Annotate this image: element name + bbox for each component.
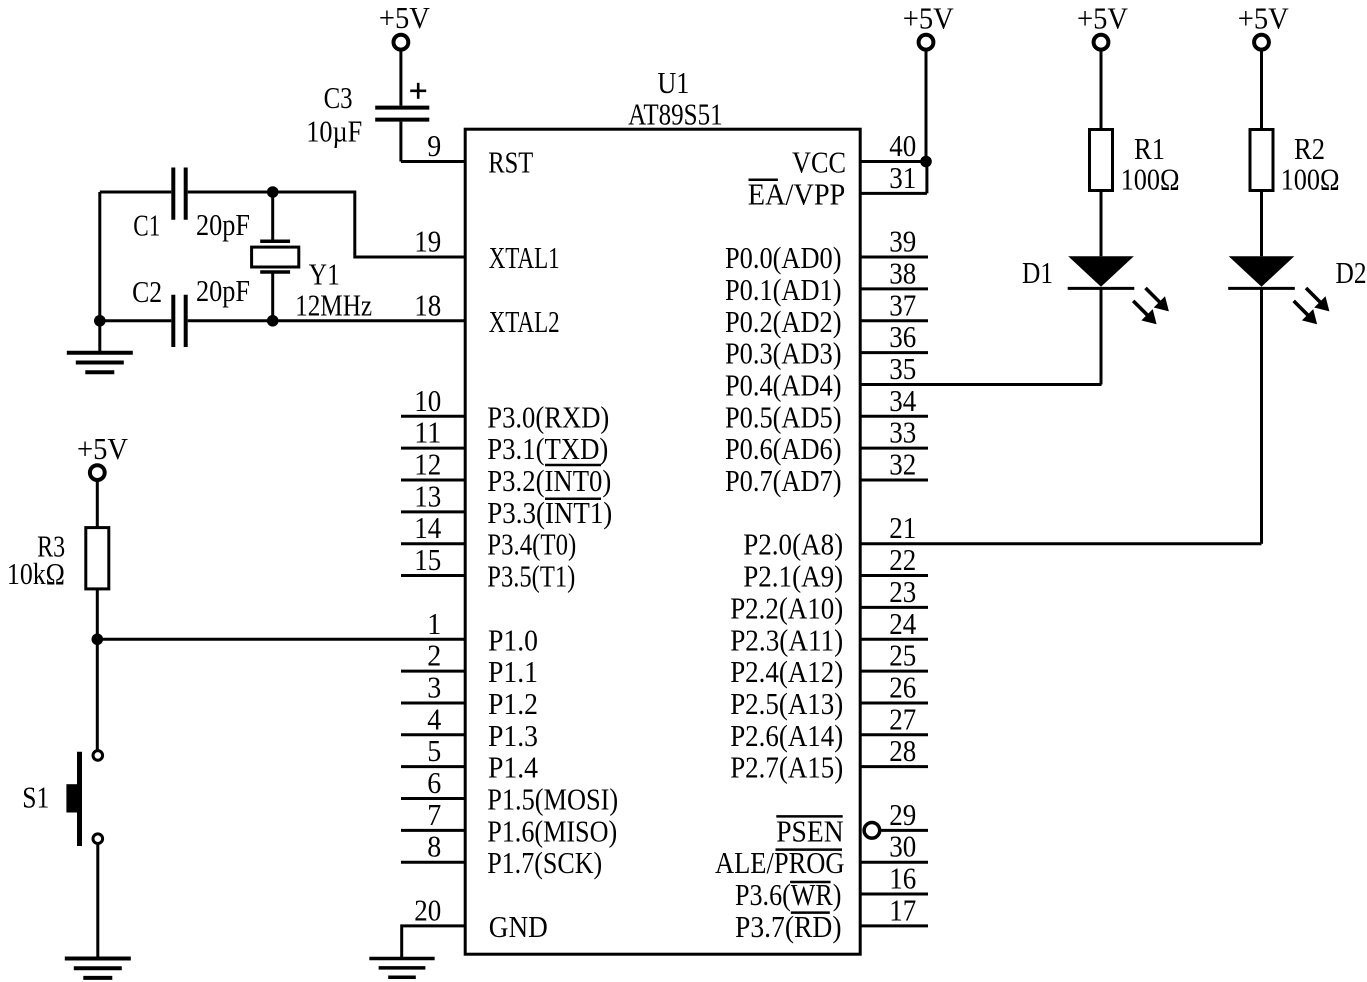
svg-text:S1: S1 [22, 780, 49, 815]
svg-text:P0.0(AD0): P0.0(AD0) [725, 240, 842, 275]
svg-text:23: 23 [889, 574, 916, 609]
svg-text:XTAL1: XTAL1 [489, 240, 560, 275]
svg-text:6: 6 [427, 765, 441, 800]
svg-text:+5V: +5V [903, 0, 955, 35]
svg-text:10: 10 [414, 383, 441, 418]
svg-text:P2.5(A13): P2.5(A13) [730, 686, 843, 721]
svg-text:21: 21 [889, 510, 916, 545]
svg-text:100Ω: 100Ω [1281, 161, 1340, 196]
svg-text:P3.0(RXD): P3.0(RXD) [487, 399, 609, 434]
svg-text:PSEN: PSEN [776, 813, 844, 848]
svg-text:P0.6(AD6): P0.6(AD6) [725, 431, 842, 466]
svg-text:28: 28 [889, 733, 916, 768]
svg-text:32: 32 [889, 447, 916, 482]
svg-text:P1.1: P1.1 [488, 654, 538, 689]
svg-text:P2.3(A11): P2.3(A11) [730, 622, 843, 657]
svg-text:36: 36 [889, 319, 916, 354]
svg-text:P0.4(AD4): P0.4(AD4) [725, 367, 842, 402]
svg-text:5: 5 [427, 733, 441, 768]
svg-text:17: 17 [889, 892, 916, 927]
svg-text:31: 31 [889, 160, 916, 195]
svg-text:2: 2 [427, 638, 441, 673]
svg-text:19: 19 [414, 224, 441, 259]
svg-text:P0.1(AD1): P0.1(AD1) [725, 272, 842, 307]
svg-text:P2.7(A15): P2.7(A15) [730, 750, 843, 785]
svg-text:P0.7(AD7): P0.7(AD7) [725, 463, 842, 498]
svg-text:3: 3 [427, 669, 441, 704]
svg-text:P1.5(MOSI): P1.5(MOSI) [487, 782, 618, 817]
svg-text:4: 4 [427, 701, 441, 736]
svg-text:100Ω: 100Ω [1121, 161, 1180, 196]
svg-text:35: 35 [889, 351, 916, 386]
svg-text:33: 33 [889, 415, 916, 450]
svg-text:P2.6(A14): P2.6(A14) [730, 718, 843, 753]
svg-text:8: 8 [427, 829, 441, 864]
svg-text:20pF: 20pF [196, 207, 250, 242]
svg-text:9: 9 [427, 128, 441, 163]
svg-text:30: 30 [889, 829, 916, 864]
svg-text:P2.2(A10): P2.2(A10) [730, 590, 843, 625]
svg-text:37: 37 [889, 287, 916, 322]
svg-text:P3.4(T0): P3.4(T0) [487, 527, 576, 562]
svg-text:P0.5(AD5): P0.5(AD5) [725, 399, 842, 434]
svg-text:P0.3(AD3): P0.3(AD3) [725, 336, 842, 371]
svg-text:Y1: Y1 [309, 256, 340, 291]
svg-text:22: 22 [889, 542, 916, 577]
svg-text:24: 24 [889, 606, 916, 641]
svg-text:7: 7 [427, 797, 441, 832]
svg-text:D1: D1 [1022, 255, 1053, 290]
svg-text:C3: C3 [324, 80, 353, 115]
svg-text:38: 38 [889, 255, 916, 290]
svg-text:P1.0: P1.0 [488, 622, 538, 657]
svg-text:P1.3: P1.3 [488, 718, 538, 753]
svg-text:P1.7(SCK): P1.7(SCK) [487, 845, 602, 880]
svg-text:27: 27 [889, 701, 916, 736]
svg-text:+5V: +5V [379, 0, 431, 35]
svg-text:P2.1(A9): P2.1(A9) [743, 559, 843, 594]
svg-text:18: 18 [414, 287, 441, 322]
svg-text:10µF: 10µF [306, 114, 362, 149]
svg-text:AT89S51: AT89S51 [628, 96, 723, 131]
svg-text:25: 25 [889, 638, 916, 673]
svg-text:12MHz: 12MHz [295, 288, 372, 323]
svg-text:10kΩ: 10kΩ [7, 556, 65, 591]
svg-text:P2.4(A12): P2.4(A12) [730, 654, 843, 689]
svg-text:20pF: 20pF [196, 273, 250, 308]
svg-text:P3.3(INT1): P3.3(INT1) [487, 495, 612, 530]
svg-text:11: 11 [414, 415, 441, 450]
svg-text:P2.0(A8): P2.0(A8) [743, 527, 843, 562]
svg-text:14: 14 [414, 510, 441, 545]
svg-text:1: 1 [427, 606, 441, 641]
svg-text:P3.7(RD): P3.7(RD) [735, 909, 842, 944]
svg-text:C2: C2 [132, 274, 162, 309]
svg-text:39: 39 [889, 224, 916, 259]
svg-text:40: 40 [889, 128, 916, 163]
svg-text:GND: GND [489, 909, 548, 944]
svg-text:+5V: +5V [1238, 0, 1290, 35]
svg-text:15: 15 [414, 542, 441, 577]
svg-text:XTAL2: XTAL2 [489, 304, 560, 339]
svg-text:P1.4: P1.4 [488, 750, 538, 785]
svg-text:P0.2(AD2): P0.2(AD2) [725, 304, 842, 339]
svg-text:C1: C1 [133, 208, 160, 243]
svg-text:20: 20 [414, 892, 441, 927]
svg-text:34: 34 [889, 383, 916, 418]
svg-text:U1: U1 [657, 65, 689, 100]
svg-text:P3.2(INT0): P3.2(INT0) [487, 463, 611, 498]
svg-text:+5V: +5V [77, 431, 129, 466]
svg-text:29: 29 [889, 797, 916, 832]
svg-text:P1.2: P1.2 [488, 686, 538, 721]
svg-text:+5V: +5V [1077, 0, 1129, 35]
svg-text:P3.5(T1): P3.5(T1) [487, 559, 575, 594]
svg-text:P3.1(TXD): P3.1(TXD) [487, 431, 608, 466]
svg-text:P1.6(MISO): P1.6(MISO) [487, 813, 617, 848]
svg-text:EA/VPP: EA/VPP [748, 176, 846, 211]
svg-text:RST: RST [488, 145, 533, 180]
svg-text:12: 12 [414, 447, 441, 482]
svg-text:VCC: VCC [792, 145, 846, 180]
svg-text:13: 13 [414, 478, 441, 513]
svg-text:26: 26 [889, 669, 916, 704]
svg-text:16: 16 [889, 861, 916, 896]
svg-text:D2: D2 [1336, 255, 1367, 290]
